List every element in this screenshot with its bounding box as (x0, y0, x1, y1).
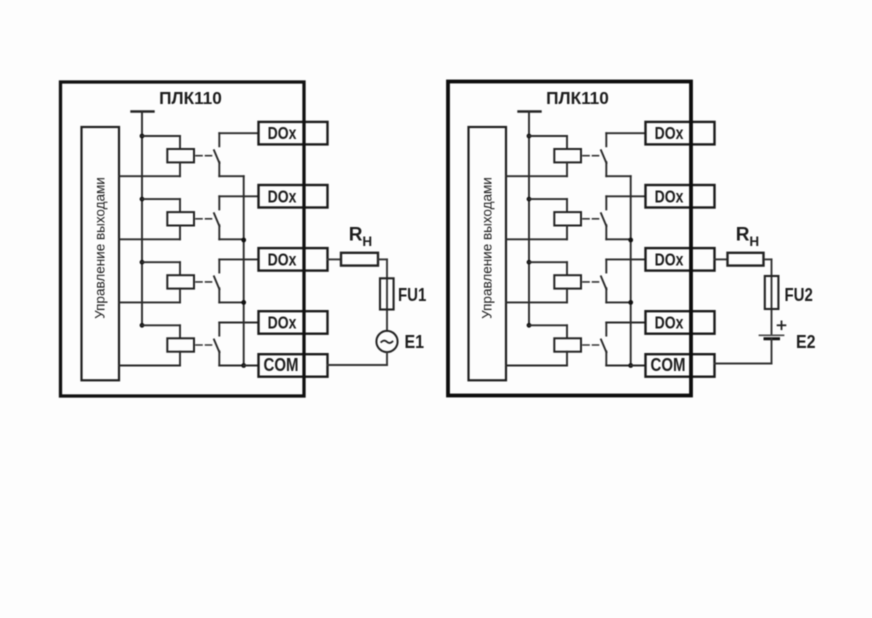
svg-text:E1: E1 (405, 331, 425, 353)
svg-text:ПЛК110: ПЛК110 (159, 88, 222, 108)
svg-text:R: R (736, 225, 750, 246)
svg-text:E2: E2 (796, 331, 816, 353)
svg-text:FU1: FU1 (398, 285, 426, 306)
svg-text:R: R (349, 225, 363, 246)
svg-text:ПЛК110: ПЛК110 (546, 88, 609, 108)
svg-text:H: H (362, 234, 372, 249)
svg-text:FU2: FU2 (785, 285, 813, 306)
svg-text:H: H (749, 234, 759, 249)
